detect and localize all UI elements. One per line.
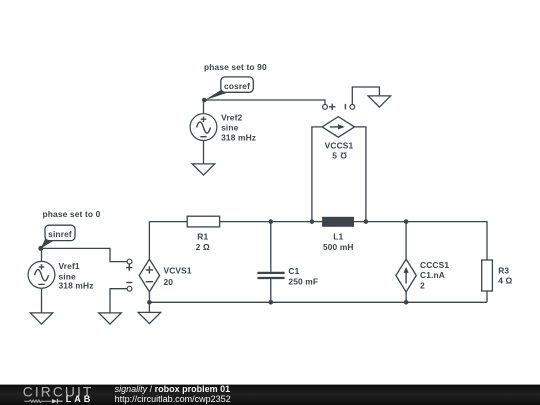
label C1 (288, 266, 318, 286)
dependent source VCCS1 (322, 117, 354, 138)
svg-text:http://circuitlab.com/cwp2352: http://circuitlab.com/cwp2352 (115, 394, 231, 404)
svg-text:sinref: sinref (48, 229, 72, 239)
svg-text:250 mF: 250 mF (288, 276, 318, 286)
svg-text:R1: R1 (197, 231, 208, 241)
terminal VCCS1 control + (323, 104, 336, 110)
junction VCCS1 left (310, 219, 315, 224)
wire C1 top (270, 222, 272, 272)
svg-text:2: 2 (420, 281, 425, 291)
svg-text:C1.nA: C1.nA (420, 270, 445, 280)
label R3 (498, 266, 512, 286)
wire C1 bottom (270, 279, 272, 302)
junction CCCS1 top (404, 219, 409, 224)
junction C1 top (269, 219, 274, 224)
ground top right (368, 96, 391, 107)
label R1 (196, 231, 210, 252)
wire Vref1 to ground (41, 288, 43, 313)
ground under VCVS1 (138, 312, 161, 323)
wire sinref node to VCVS1 control + (42, 248, 128, 261)
ground under Vref2 (192, 164, 215, 175)
svg-text:4 Ω: 4 Ω (498, 276, 512, 286)
wire top row left (149, 221, 187, 223)
svg-text:cosref: cosref (224, 81, 250, 91)
junction C1 bottom (269, 300, 274, 305)
terminal VCVS1 control + (126, 259, 132, 271)
resistor R1 (187, 216, 219, 227)
wire VCCS1 control - to ground (352, 87, 379, 104)
wire VCVS1 control - to ground (110, 289, 127, 313)
junction sinref node (38, 246, 43, 251)
svg-text:CCCS1: CCCS1 (420, 260, 449, 270)
wire right column bottom (486, 291, 488, 302)
label L1 (323, 231, 354, 252)
wire Vref2 top to VCCS1 control + (204, 100, 326, 114)
svg-text:R3: R3 (498, 266, 509, 276)
ground under VCVS1 control (99, 313, 122, 324)
svg-text:Vref2: Vref2 (221, 113, 242, 123)
svg-text:500 mH: 500 mH (323, 242, 354, 252)
junction VCVS1 bottom (147, 300, 152, 305)
svg-text:VCVS1: VCVS1 (164, 266, 192, 276)
dependent source CCCS1 (396, 259, 416, 292)
wire CCCS1 bottom (405, 292, 407, 303)
flag sinref (41, 225, 75, 248)
svg-text:phase set to 90: phase set to 90 (204, 62, 267, 72)
voltage source Vref1 (28, 261, 55, 288)
label CCCS1 (420, 260, 449, 291)
wire VCCS1 left leg (312, 127, 322, 222)
wire bottom row (149, 301, 487, 303)
svg-text:Vref1: Vref1 (59, 261, 80, 271)
resistor R3 (482, 260, 493, 291)
svg-text:LAB: LAB (66, 394, 94, 404)
junction VCCS1 right (364, 219, 369, 224)
capacitor C1 (257, 273, 284, 278)
wire VCVS1 top leg (148, 222, 150, 260)
svg-text:5: 5 (332, 150, 337, 160)
wire Vref2 to ground (203, 141, 205, 164)
label VCVS1 (164, 266, 192, 287)
junction CCCS1 bottom (404, 300, 409, 305)
wire VCVS1 bottom leg (148, 292, 150, 313)
voltage source Vref2 (190, 114, 217, 141)
junction cosref node (202, 98, 207, 103)
label Vref2 (221, 113, 256, 143)
wire top row right (220, 222, 487, 260)
flag cosref (205, 77, 254, 100)
wire VCCS1 right leg (355, 127, 366, 222)
ground under Vref1 (30, 313, 53, 324)
logo resistor zigzag and diode (24, 399, 62, 404)
svg-text:sine: sine (221, 122, 239, 132)
svg-text:L1: L1 (333, 231, 343, 241)
svg-text:phase set to 0: phase set to 0 (43, 209, 101, 219)
label VCCS1 (325, 140, 354, 160)
svg-text:20: 20 (164, 277, 174, 287)
label Vref1 (59, 261, 94, 291)
svg-text:2 Ω: 2 Ω (196, 242, 210, 252)
terminal VCVS1 control - (126, 283, 132, 292)
wire Vref1 to sinref node (41, 248, 43, 261)
svg-text:318 mHz: 318 mHz (59, 281, 94, 291)
svg-text:VCCS1: VCCS1 (325, 140, 354, 150)
svg-text:C1: C1 (288, 266, 299, 276)
footer bar (0, 385, 540, 405)
svg-text:signality / robox problem 01: signality / robox problem 01 (115, 384, 231, 394)
svg-text:318 mHz: 318 mHz (221, 133, 256, 143)
dependent source VCVS1 (139, 259, 159, 292)
terminal VCCS1 control - (345, 104, 354, 110)
wire CCCS1 top (405, 222, 407, 260)
svg-text:Ω: Ω (340, 150, 347, 160)
inductor L1 (322, 217, 354, 227)
